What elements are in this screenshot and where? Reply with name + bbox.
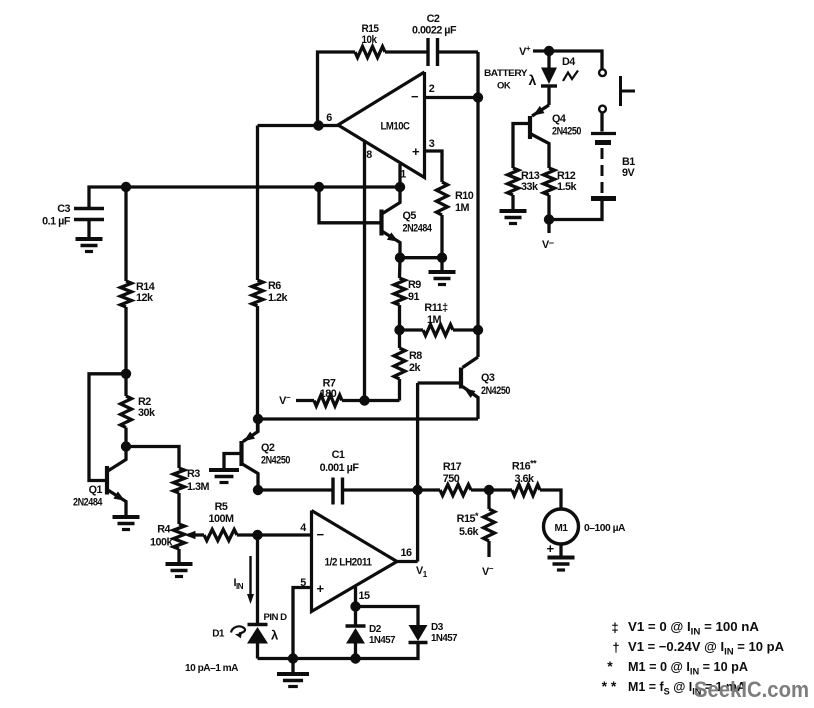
resistor R8 <box>394 330 422 379</box>
resistor R10 <box>437 182 474 215</box>
svg-text:3: 3 <box>429 138 435 150</box>
svg-text:C1: C1 <box>332 449 345 461</box>
node R10 bottom / ground <box>437 253 447 263</box>
svg-text:BATTERY: BATTERY <box>484 68 528 79</box>
svg-text:+: + <box>412 144 420 159</box>
node R17/R16/R15* <box>484 485 494 495</box>
svg-text:4: 4 <box>300 522 306 534</box>
resistor R7 <box>314 378 342 407</box>
svg-text:0.0022 µF: 0.0022 µF <box>412 25 457 37</box>
svg-text:750: 750 <box>443 473 460 485</box>
wire Q2 base to ground <box>224 454 240 471</box>
wire pin 5 <box>293 588 312 659</box>
wire R2 to collector node <box>124 428 127 447</box>
svg-text:R3: R3 <box>187 468 200 480</box>
wire R14 to R2 node <box>124 307 127 374</box>
svg-text:+: + <box>316 581 324 596</box>
svg-text:180: 180 <box>320 388 337 400</box>
svg-text:2N2484: 2N2484 <box>73 497 102 509</box>
resistor R17 <box>418 461 471 496</box>
resistor R3 <box>174 468 210 493</box>
node pin 15 / D2 / D3 top <box>350 601 360 611</box>
wire feedback from pin 6 up and right to R15 <box>318 52 356 126</box>
resistor R2 <box>121 374 157 428</box>
potentiometer R4 <box>150 524 185 550</box>
svg-text:2N4250: 2N4250 <box>481 385 510 397</box>
svg-text:2: 2 <box>429 83 435 95</box>
wire R9 to R11 node <box>398 305 401 330</box>
svg-text:1M: 1M <box>427 314 442 326</box>
wire R15 to C2 <box>385 50 428 53</box>
wire D2/D3 top link <box>356 607 419 626</box>
watermark SeekIC.com <box>694 677 809 702</box>
wire R8 to V- line <box>398 379 401 401</box>
svg-text:3.6k: 3.6k <box>514 473 535 485</box>
wire C1 right to V1 node <box>343 488 418 491</box>
svg-text:R6: R6 <box>268 280 281 292</box>
resistor R12 <box>544 168 578 195</box>
ground Q1 emitter <box>113 517 140 530</box>
svg-text:Q5: Q5 <box>403 210 417 222</box>
resistor R5 with wiper arrow <box>185 501 258 541</box>
wire D1 to bottom line <box>256 644 259 659</box>
node battery V- <box>544 214 554 224</box>
node net A / Q5 base branch <box>314 182 324 192</box>
svg-text:10k: 10k <box>362 34 378 46</box>
wire V+ line <box>533 51 602 69</box>
svg-text:R8: R8 <box>409 350 422 362</box>
transistor Q1 2N2484 <box>73 447 126 518</box>
node Q2 emitter line <box>253 414 263 424</box>
node Q2 collector / C1 <box>253 485 263 495</box>
svg-text:OK: OK <box>497 81 511 92</box>
svg-text:12k: 12k <box>136 292 154 304</box>
wire to Q5 base <box>319 187 380 223</box>
node R14/R2/base branch <box>121 369 131 379</box>
svg-text:1.3M: 1.3M <box>187 481 210 493</box>
diode D2 1N457 <box>346 607 396 659</box>
wire right rail vertical (C2/pin2/R11/Q3) <box>476 52 479 357</box>
wire pin 16 to V1 rail <box>397 560 418 563</box>
capacitor C3 <box>42 203 104 228</box>
svg-text:−: − <box>316 527 324 542</box>
svg-text:Q2: Q2 <box>261 442 275 454</box>
node Q5 emitter <box>395 253 405 263</box>
wire bottom common line <box>258 643 419 659</box>
wire pin 3 to R10 <box>425 151 443 182</box>
transistor Q4 2N4250 <box>530 105 581 168</box>
node pin 1 / net A <box>395 182 405 192</box>
wire net A to R14 <box>124 187 127 281</box>
svg-text:1.2k: 1.2k <box>268 292 289 304</box>
resistor R6 <box>252 280 289 306</box>
svg-text:9V: 9V <box>622 167 636 179</box>
svg-text:R10: R10 <box>455 190 474 202</box>
svg-text:λ: λ <box>529 72 537 88</box>
resistor R16 <box>489 459 561 510</box>
svg-text:2k: 2k <box>409 362 422 374</box>
svg-text:33k: 33k <box>521 181 539 193</box>
svg-text:Q1: Q1 <box>89 484 103 496</box>
wire Q4 base to R13 <box>513 124 528 169</box>
svg-text:* *: * * <box>602 678 617 694</box>
wire pin4 node down to D1 <box>256 535 259 624</box>
wire R6 to Q2 emitter <box>256 306 259 432</box>
wire R4 to ground <box>177 549 180 564</box>
wire net A horizontal <box>89 187 400 209</box>
svg-text:100k: 100k <box>150 537 174 549</box>
transistor Q5 2N2484 <box>382 187 432 258</box>
svg-text:1.5k: 1.5k <box>557 181 578 193</box>
svg-text:1/2 LH2011: 1/2 LH2011 <box>325 557 372 569</box>
photodiode D1 PIN D <box>212 612 287 644</box>
svg-text:PIN D: PIN D <box>264 612 288 622</box>
wire R12 to V- node <box>547 195 550 220</box>
svg-text:‡: ‡ <box>611 620 618 635</box>
svg-text:1M: 1M <box>455 202 470 214</box>
switch S1 <box>599 69 635 112</box>
note 3 <box>607 658 748 678</box>
label V- battery <box>542 238 554 251</box>
svg-text:Q3: Q3 <box>481 372 495 384</box>
svg-text:1N457: 1N457 <box>369 635 396 646</box>
node D2 bottom <box>350 653 360 663</box>
node R11 right / rail <box>473 325 483 335</box>
wire Q2 emitter line <box>258 417 478 420</box>
meter M1 <box>544 509 626 556</box>
node pin 6 output <box>313 120 323 130</box>
wire pin6 output down through R6 <box>256 126 259 281</box>
wire R17 to node <box>471 488 489 491</box>
label V- at R7 <box>279 393 291 407</box>
transistor Q3 2N4250 <box>461 357 510 419</box>
node Q1 collector / R2 / R3 <box>121 441 131 451</box>
svg-text:R11‡: R11‡ <box>424 302 448 314</box>
svg-text:D4: D4 <box>562 56 575 68</box>
wire R15* to V- <box>487 541 490 557</box>
wire pin 4 input <box>258 533 312 536</box>
node R5 / pin 4 / photodiode <box>252 530 262 540</box>
svg-text:30k: 30k <box>138 407 156 419</box>
wire C3 to ground <box>87 220 90 240</box>
svg-text:+: + <box>546 541 554 556</box>
svg-text:R4: R4 <box>157 524 170 536</box>
ground Q2 base <box>209 470 239 483</box>
svg-text:C2: C2 <box>427 13 440 25</box>
wire V- to R7 <box>296 399 314 402</box>
wire R13 to ground <box>511 195 514 211</box>
annotation IIN arrow <box>234 556 255 604</box>
svg-text:0.001 µF: 0.001 µF <box>320 462 360 474</box>
svg-text:6: 6 <box>326 112 332 124</box>
svg-text:2N4250: 2N4250 <box>261 455 290 467</box>
label V1 <box>416 565 428 579</box>
svg-text:16: 16 <box>400 547 412 559</box>
label V+ <box>519 44 531 58</box>
svg-text:R5: R5 <box>215 501 228 513</box>
note 2 <box>612 639 784 658</box>
wire M1 to ground <box>559 544 562 558</box>
ground below R10 <box>429 272 456 285</box>
wire to bottom ground <box>291 659 294 675</box>
svg-text:2N4250: 2N4250 <box>552 126 581 138</box>
note 1 <box>611 619 759 638</box>
wire R10 down <box>440 215 443 258</box>
note 4 <box>602 678 747 698</box>
wire R7 to R8 corner <box>342 399 400 402</box>
svg-text:*: * <box>607 658 613 674</box>
wire to ground below R10 <box>440 258 443 272</box>
battery B1 9V <box>591 134 636 199</box>
svg-text:D2: D2 <box>369 624 382 635</box>
svg-text:SeekIC.com: SeekIC.com <box>694 677 809 702</box>
svg-text:91: 91 <box>408 291 420 303</box>
resistor R15* (5.6k) <box>457 490 495 541</box>
ground below R4 <box>166 564 193 577</box>
svg-text:R9: R9 <box>408 279 421 291</box>
wire node to R3 <box>126 447 179 469</box>
svg-text:R17: R17 <box>443 461 462 473</box>
wire C2 to right rail <box>438 50 479 53</box>
svg-text:LM10C: LM10C <box>381 121 411 133</box>
svg-text:D1: D1 <box>212 629 225 640</box>
node pin2-rail junction <box>473 92 483 102</box>
node V+/D4 <box>544 46 554 56</box>
svg-text:†: † <box>612 640 619 655</box>
wire pin 8 down to R7 line <box>363 142 366 401</box>
label V- below R15* <box>482 564 494 578</box>
resistor R13 <box>508 168 540 195</box>
wire Q3 base to V1 rail <box>418 381 460 384</box>
svg-text:M1: M1 <box>555 523 569 534</box>
op-amp U1 LM10C <box>326 72 435 181</box>
LED D4 battery-ok <box>484 51 578 105</box>
svg-text:−: − <box>411 89 419 104</box>
resistor R15 <box>355 23 385 58</box>
node pin5/ground junction <box>288 653 298 663</box>
wire Q5 emitter line to R10 <box>400 256 442 259</box>
svg-text:10 pA–1 mA: 10 pA–1 mA <box>185 663 238 674</box>
node R14 top <box>121 182 131 192</box>
ground bottom <box>277 674 309 687</box>
wire branch to Q1 base <box>89 374 126 481</box>
svg-text:D3: D3 <box>431 622 444 633</box>
diode D3 1N457 <box>409 622 458 644</box>
wire pin 1 down <box>398 164 401 187</box>
wire C1 left <box>258 488 333 491</box>
wire pin 15 down <box>354 587 357 607</box>
wire R3 to R4 <box>177 493 180 524</box>
resistor R9 <box>394 278 421 305</box>
label 10 pA - 1 mA <box>185 663 238 674</box>
wire pin 2 to right rail <box>425 96 479 99</box>
resistor R14 <box>121 281 155 307</box>
svg-text:0–100 µA: 0–100 µA <box>584 522 626 534</box>
svg-text:1N457: 1N457 <box>431 633 458 644</box>
wire R9 from Q5 emitter <box>398 258 402 278</box>
wire node to V- label <box>547 220 550 234</box>
capacitor C2 <box>412 13 457 66</box>
svg-text:C3: C3 <box>57 203 70 215</box>
svg-text:15: 15 <box>358 590 370 602</box>
svg-text:100M: 100M <box>209 513 234 525</box>
node R9/R8/R11 <box>394 325 404 335</box>
resistor R11 <box>400 302 479 336</box>
svg-text:2N2484: 2N2484 <box>403 223 432 235</box>
transistor Q2 2N4250 <box>242 419 291 490</box>
op-amp U2 1/2 LH2011 <box>300 511 412 612</box>
wire switch to battery <box>600 113 603 132</box>
node pin 8 / R7 line <box>359 395 369 405</box>
ground below M1 <box>548 558 575 571</box>
wire pin 6 output left <box>258 124 339 127</box>
ground below C3 <box>76 239 103 252</box>
svg-text:0.1 µF: 0.1 µF <box>42 216 71 228</box>
ground below R13 <box>500 211 527 224</box>
svg-text:Q4: Q4 <box>552 113 566 125</box>
wire battery to V- node <box>549 201 602 220</box>
node V1 / C1 / R17 <box>412 485 422 495</box>
capacitor C1 <box>320 449 360 505</box>
svg-text:8: 8 <box>366 149 372 161</box>
svg-text:5.6k: 5.6k <box>459 526 480 538</box>
wire V1 rail vertical <box>416 383 419 562</box>
